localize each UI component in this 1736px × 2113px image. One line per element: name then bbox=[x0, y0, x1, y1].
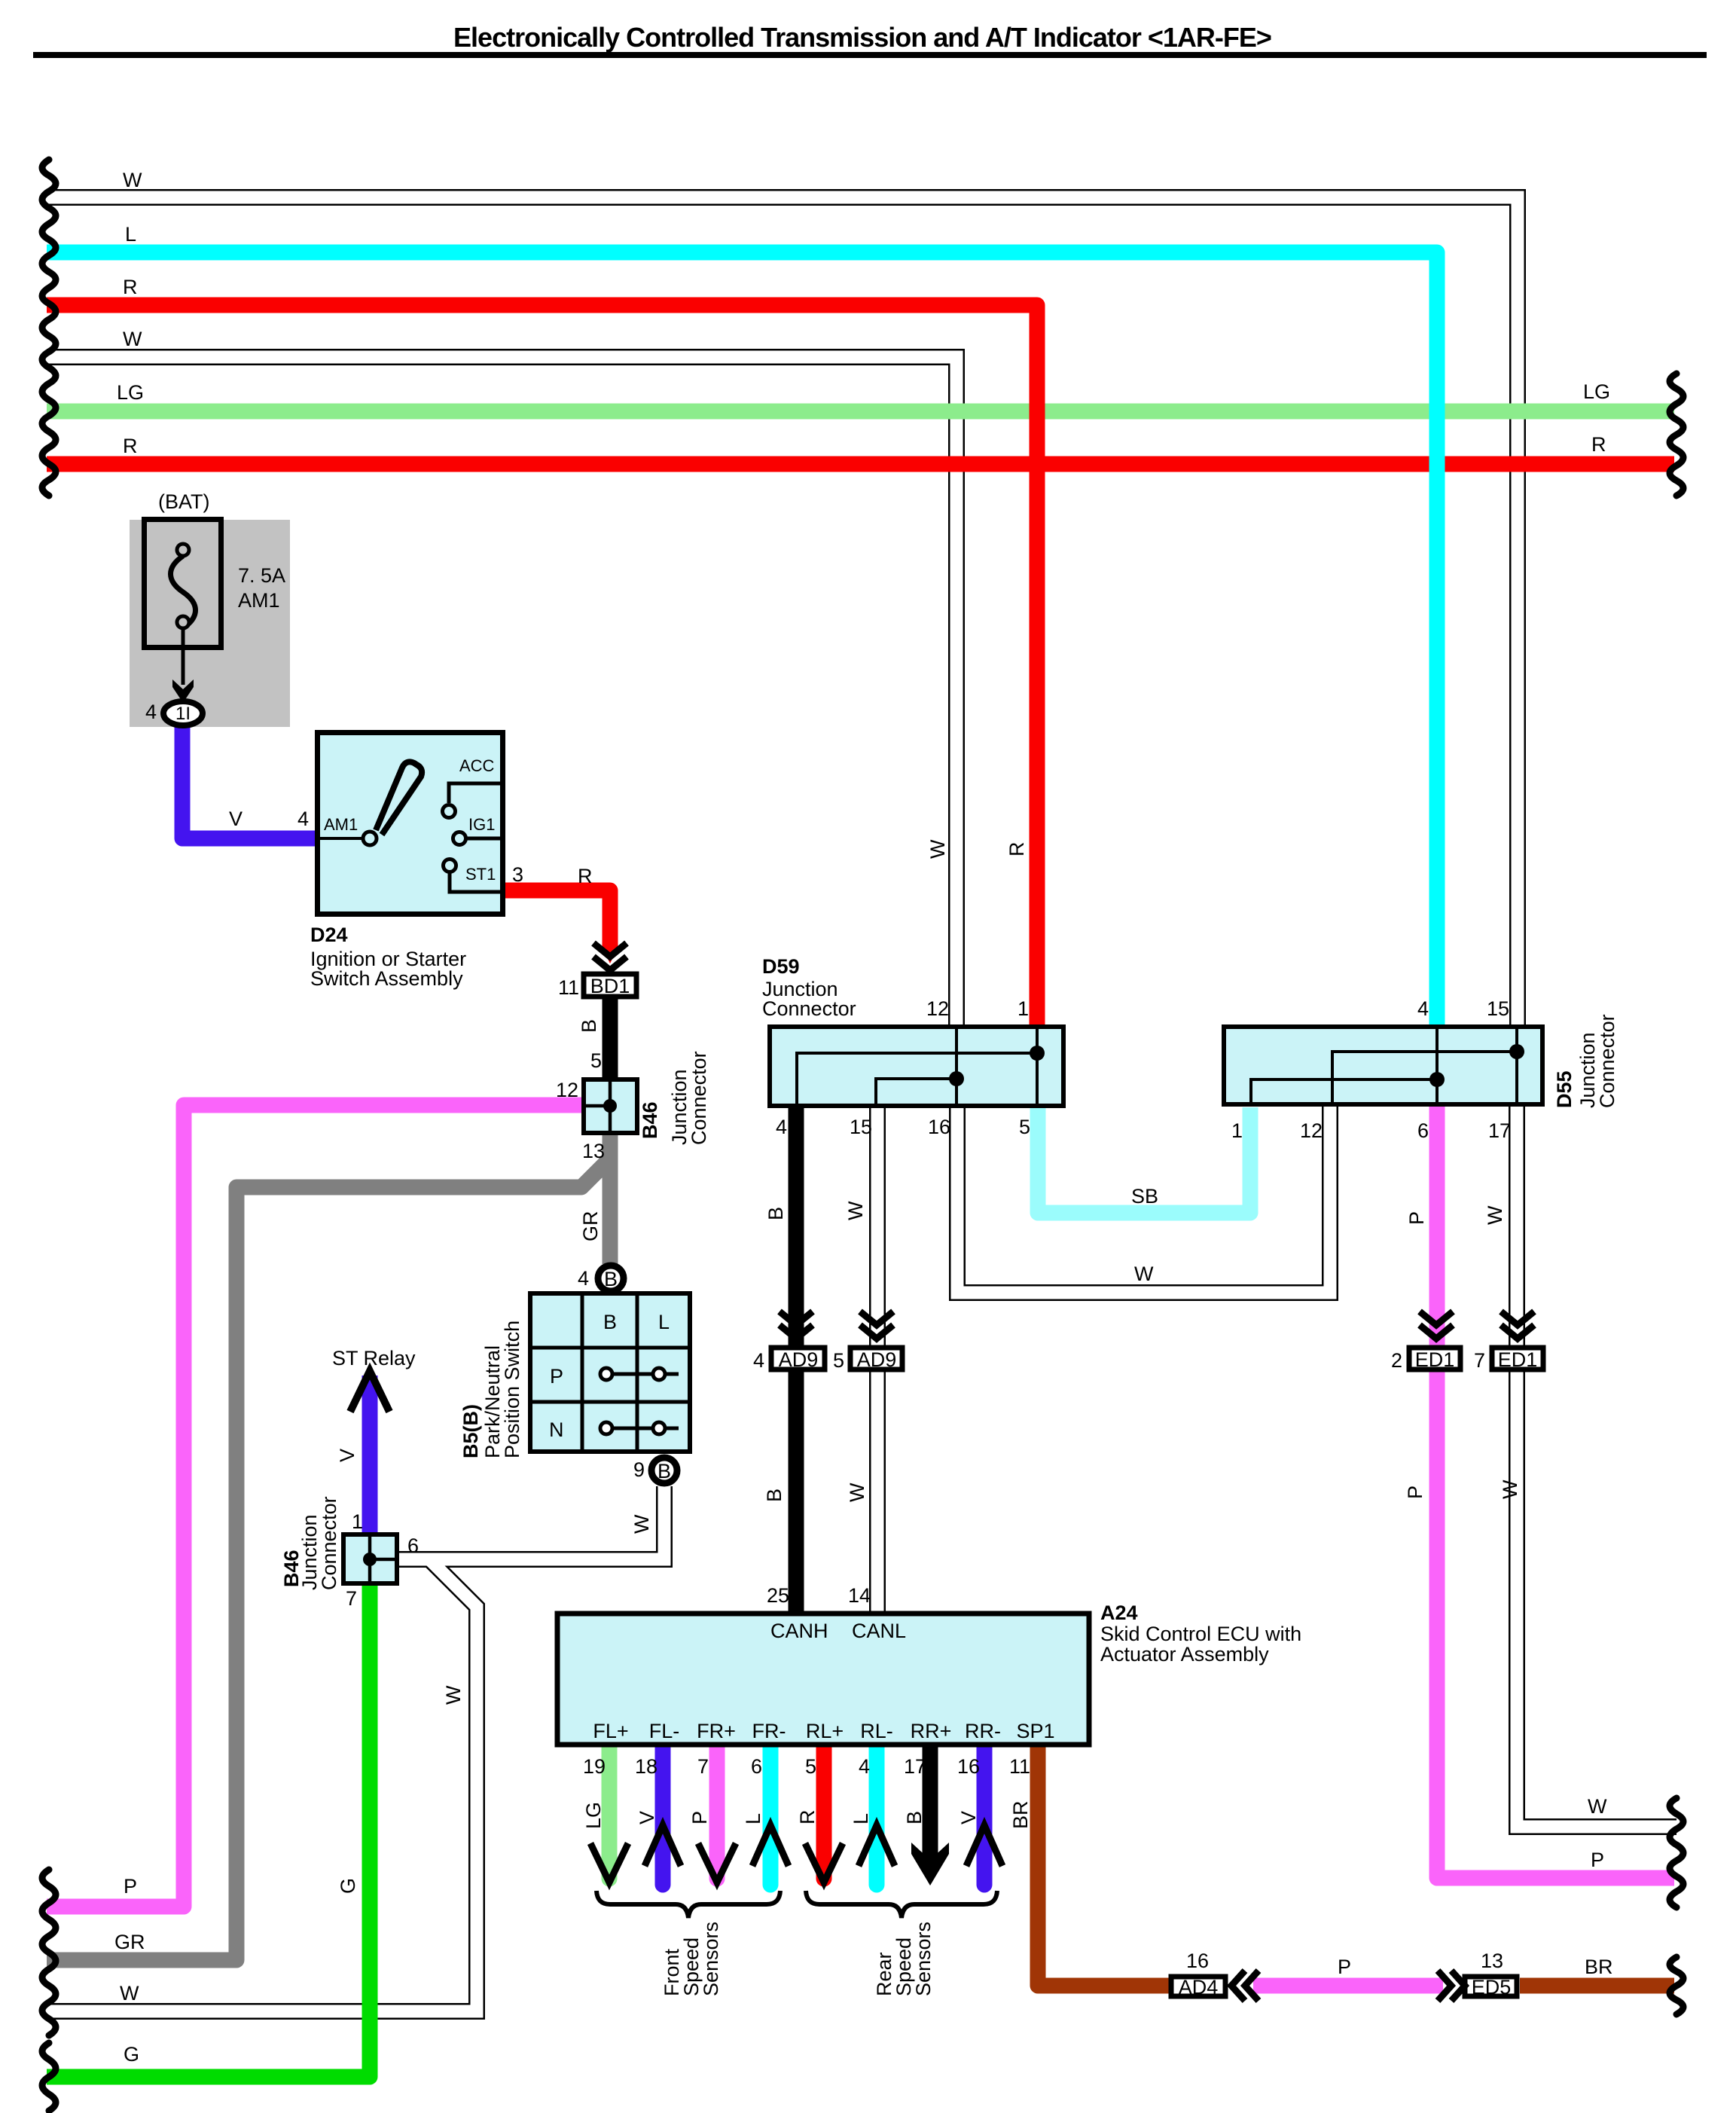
svg-text:D59: D59 bbox=[762, 955, 800, 978]
svg-text:R: R bbox=[578, 865, 593, 887]
svg-text:4: 4 bbox=[578, 1267, 589, 1290]
svg-text:ED5: ED5 bbox=[1472, 1976, 1512, 1998]
svg-text:L: L bbox=[658, 1311, 670, 1333]
svg-text:P: P bbox=[1404, 1486, 1426, 1499]
svg-text:Connector: Connector bbox=[318, 1496, 340, 1590]
svg-text:W: W bbox=[442, 1685, 465, 1705]
svg-text:B46: B46 bbox=[639, 1101, 661, 1139]
svg-text:L: L bbox=[742, 1813, 764, 1824]
svg-text:Switch Assembly: Switch Assembly bbox=[310, 967, 463, 990]
svg-text:GR: GR bbox=[114, 1931, 145, 1953]
svg-text:4: 4 bbox=[753, 1349, 764, 1372]
svg-text:7: 7 bbox=[697, 1755, 709, 1778]
svg-text:B: B bbox=[657, 1460, 671, 1482]
svg-text:ACC: ACC bbox=[459, 756, 495, 775]
svg-text:1I: 1I bbox=[175, 704, 191, 724]
svg-text:16: 16 bbox=[928, 1116, 950, 1138]
svg-text:Sensors: Sensors bbox=[912, 1922, 935, 1996]
svg-text:B: B bbox=[764, 1207, 787, 1220]
svg-text:BR: BR bbox=[1009, 1800, 1032, 1829]
svg-text:18: 18 bbox=[635, 1755, 657, 1778]
svg-text:4: 4 bbox=[859, 1755, 870, 1778]
svg-text:17: 17 bbox=[904, 1755, 926, 1778]
svg-text:FR+: FR+ bbox=[697, 1720, 736, 1742]
svg-text:Connector: Connector bbox=[688, 1051, 710, 1145]
svg-text:D55: D55 bbox=[1553, 1070, 1576, 1108]
svg-text:Actuator Assembly: Actuator Assembly bbox=[1100, 1643, 1269, 1666]
svg-text:L: L bbox=[850, 1813, 872, 1824]
svg-text:15: 15 bbox=[850, 1116, 872, 1138]
svg-text:B5(B): B5(B) bbox=[459, 1404, 482, 1458]
svg-text:1: 1 bbox=[1017, 997, 1029, 1020]
svg-text:BD1: BD1 bbox=[590, 975, 630, 997]
svg-text:Connector: Connector bbox=[1596, 1014, 1619, 1108]
svg-text:A24: A24 bbox=[1100, 1602, 1138, 1624]
svg-text:W: W bbox=[1484, 1205, 1506, 1225]
svg-text:AD9: AD9 bbox=[857, 1348, 897, 1371]
svg-text:D24: D24 bbox=[310, 924, 348, 946]
svg-text:5: 5 bbox=[590, 1049, 602, 1072]
svg-text:7: 7 bbox=[346, 1587, 357, 1610]
svg-text:16: 16 bbox=[1186, 1950, 1209, 1972]
svg-text:IG1: IG1 bbox=[468, 815, 495, 834]
svg-text:4: 4 bbox=[1417, 997, 1429, 1020]
svg-text:15: 15 bbox=[1487, 997, 1509, 1020]
svg-text:19: 19 bbox=[583, 1755, 606, 1778]
svg-text:ED1: ED1 bbox=[1415, 1348, 1455, 1371]
svg-text:Connector: Connector bbox=[762, 997, 856, 1020]
svg-text:LG: LG bbox=[117, 381, 144, 404]
svg-text:4: 4 bbox=[776, 1116, 787, 1138]
svg-text:FL-: FL- bbox=[649, 1720, 680, 1742]
svg-text:RL+: RL+ bbox=[806, 1720, 844, 1742]
svg-text:L: L bbox=[125, 223, 136, 246]
svg-text:4: 4 bbox=[297, 808, 309, 830]
svg-text:6: 6 bbox=[751, 1755, 762, 1778]
svg-text:9: 9 bbox=[633, 1458, 645, 1481]
svg-text:V: V bbox=[336, 1449, 358, 1462]
svg-text:R: R bbox=[796, 1810, 819, 1825]
svg-text:12: 12 bbox=[926, 997, 949, 1020]
svg-text:AM1: AM1 bbox=[324, 815, 358, 834]
svg-text:N: N bbox=[549, 1418, 564, 1441]
svg-text:3: 3 bbox=[512, 863, 523, 886]
svg-text:CANH: CANH bbox=[770, 1620, 828, 1642]
svg-text:Position Switch: Position Switch bbox=[501, 1321, 523, 1458]
svg-text:SP1: SP1 bbox=[1016, 1720, 1054, 1742]
svg-text:1: 1 bbox=[1231, 1119, 1243, 1142]
svg-text:W: W bbox=[123, 328, 142, 350]
svg-text:R: R bbox=[123, 435, 138, 457]
svg-text:7: 7 bbox=[1474, 1349, 1485, 1372]
svg-text:CANL: CANL bbox=[852, 1620, 906, 1642]
svg-text:14: 14 bbox=[848, 1584, 871, 1607]
svg-text:B: B bbox=[903, 1811, 926, 1824]
svg-text:LG: LG bbox=[1583, 380, 1610, 403]
svg-text:V: V bbox=[636, 1811, 658, 1824]
svg-text:W: W bbox=[926, 839, 949, 859]
svg-text:RR-: RR- bbox=[965, 1720, 1001, 1742]
svg-text:W: W bbox=[1134, 1263, 1154, 1285]
svg-text:P: P bbox=[1338, 1956, 1351, 1978]
svg-text:P: P bbox=[1405, 1211, 1428, 1225]
svg-text:ED1: ED1 bbox=[1498, 1348, 1538, 1371]
svg-text:W: W bbox=[844, 1201, 867, 1220]
svg-text:W: W bbox=[123, 169, 142, 191]
svg-text:W: W bbox=[630, 1514, 653, 1534]
svg-text:5: 5 bbox=[833, 1349, 844, 1372]
svg-text:25: 25 bbox=[767, 1584, 789, 1607]
svg-text:P: P bbox=[1591, 1849, 1604, 1871]
svg-text:16: 16 bbox=[957, 1755, 980, 1778]
svg-text:W: W bbox=[120, 1982, 139, 2005]
svg-text:ST Relay: ST Relay bbox=[332, 1347, 416, 1369]
svg-text:12: 12 bbox=[556, 1079, 578, 1101]
svg-text:6: 6 bbox=[1417, 1119, 1429, 1142]
svg-text:P: P bbox=[550, 1365, 563, 1388]
svg-text:FL+: FL+ bbox=[593, 1720, 628, 1742]
svg-text:W: W bbox=[1499, 1479, 1521, 1499]
svg-text:ST1: ST1 bbox=[465, 865, 496, 884]
svg-text:6: 6 bbox=[407, 1534, 419, 1557]
svg-text:R: R bbox=[1591, 433, 1606, 456]
svg-text:V: V bbox=[229, 808, 243, 830]
svg-text:G: G bbox=[124, 2043, 139, 2066]
svg-text:1: 1 bbox=[352, 1510, 363, 1533]
svg-text:11: 11 bbox=[1009, 1755, 1030, 1778]
svg-text:GR: GR bbox=[579, 1211, 602, 1242]
svg-text:G: G bbox=[337, 1878, 359, 1894]
svg-text:13: 13 bbox=[1481, 1950, 1503, 1972]
svg-text:FR-: FR- bbox=[752, 1720, 786, 1742]
svg-text:AM1: AM1 bbox=[238, 589, 280, 612]
svg-text:R: R bbox=[1005, 842, 1028, 857]
svg-text:W: W bbox=[846, 1482, 868, 1502]
svg-text:AD4: AD4 bbox=[1179, 1976, 1219, 1998]
svg-text:B: B bbox=[578, 1019, 600, 1033]
svg-text:13: 13 bbox=[582, 1140, 605, 1162]
svg-text:B: B bbox=[604, 1268, 618, 1290]
svg-text:W: W bbox=[1588, 1795, 1607, 1818]
svg-text:2: 2 bbox=[1391, 1349, 1402, 1372]
svg-text:P: P bbox=[124, 1875, 137, 1898]
svg-text:(BAT): (BAT) bbox=[158, 490, 210, 513]
svg-text:4: 4 bbox=[145, 701, 157, 723]
svg-text:11: 11 bbox=[558, 976, 579, 999]
svg-text:LG: LG bbox=[582, 1802, 605, 1829]
svg-text:Skid Control ECU with: Skid Control ECU with bbox=[1100, 1623, 1301, 1645]
svg-text:V: V bbox=[957, 1811, 980, 1824]
svg-text:7. 5A: 7. 5A bbox=[238, 564, 285, 587]
svg-text:Electronically Controlled Tran: Electronically Controlled Transmission a… bbox=[453, 22, 1271, 53]
svg-text:B: B bbox=[603, 1311, 617, 1333]
svg-text:SB: SB bbox=[1131, 1185, 1158, 1208]
svg-text:5: 5 bbox=[1019, 1116, 1030, 1138]
svg-text:AD9: AD9 bbox=[779, 1348, 819, 1371]
svg-text:RR+: RR+ bbox=[911, 1720, 952, 1742]
svg-text:12: 12 bbox=[1300, 1119, 1323, 1142]
svg-text:RL-: RL- bbox=[860, 1720, 893, 1742]
svg-text:P: P bbox=[688, 1811, 711, 1824]
svg-text:B: B bbox=[763, 1489, 786, 1502]
svg-text:BR: BR bbox=[1585, 1956, 1613, 1978]
svg-text:R: R bbox=[123, 276, 138, 298]
svg-text:5: 5 bbox=[805, 1755, 816, 1778]
svg-text:Sensors: Sensors bbox=[700, 1922, 722, 1996]
svg-text:17: 17 bbox=[1488, 1119, 1511, 1142]
